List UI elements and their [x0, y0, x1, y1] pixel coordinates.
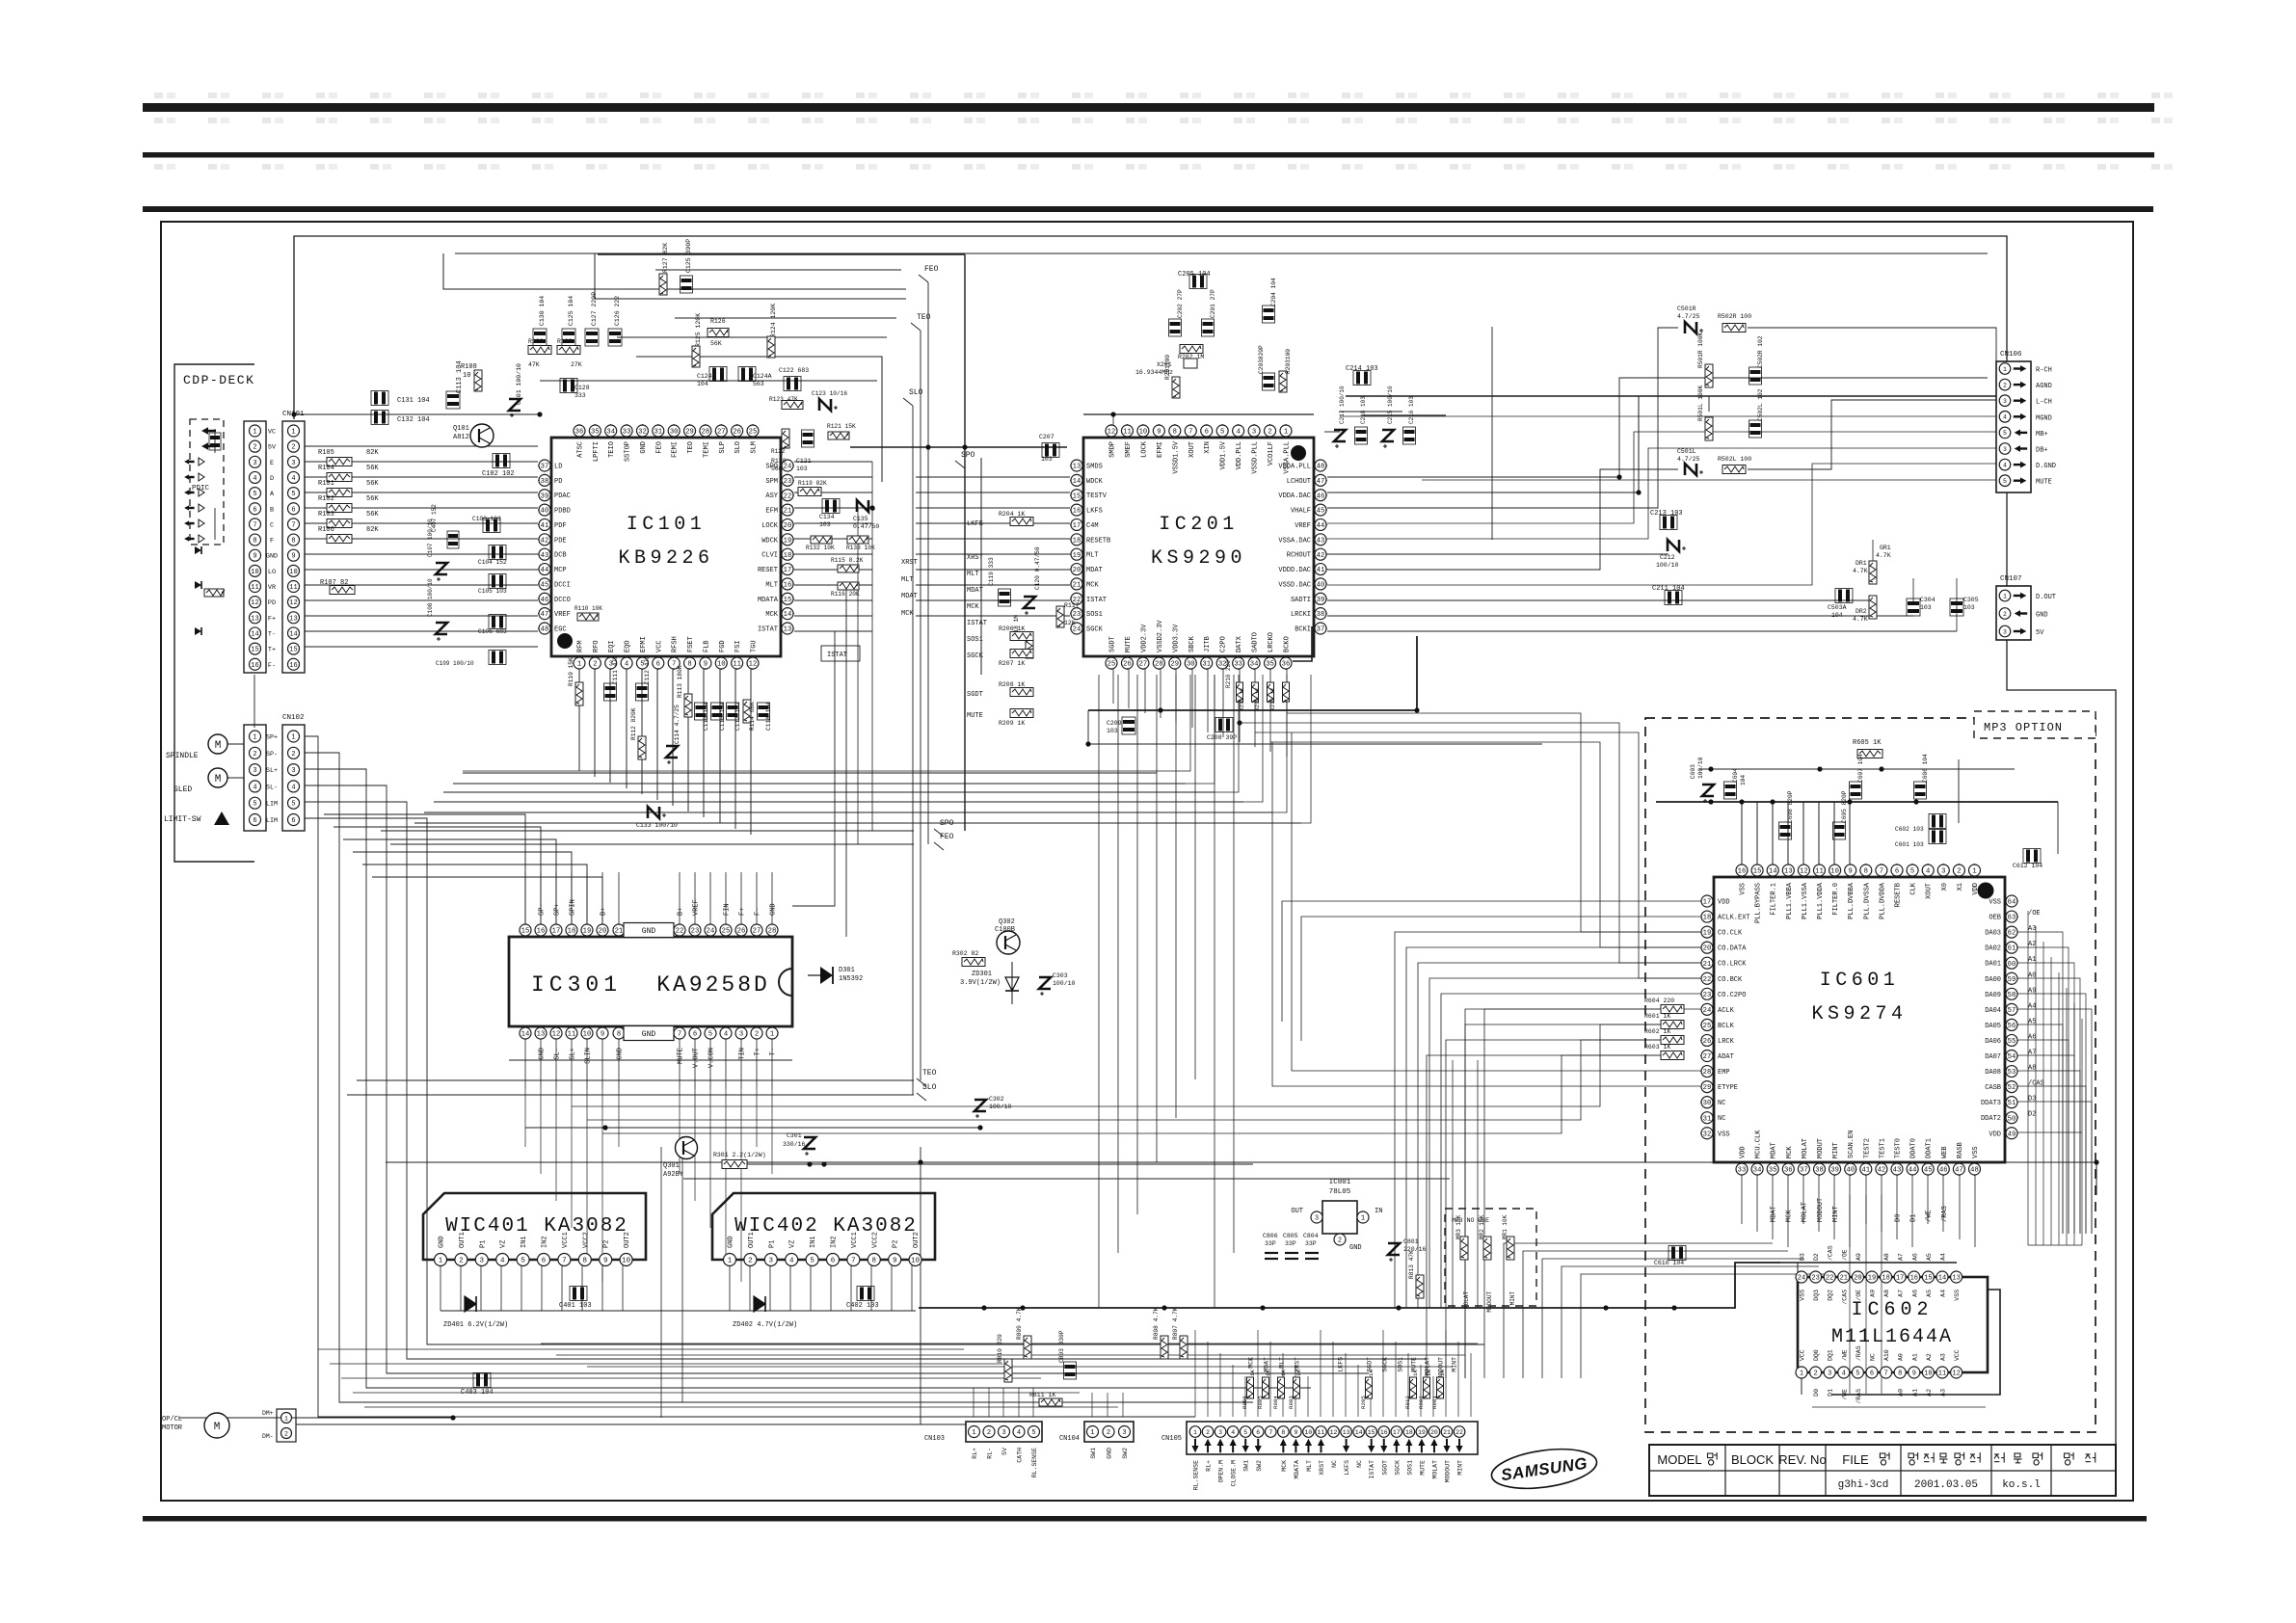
svg-text:4: 4: [1017, 1429, 1021, 1437]
svg-text:R811 1K: R811 1K: [1029, 1392, 1055, 1398]
svg-text:VCC: VCC: [1954, 1349, 1961, 1361]
svg-text:A3: A3: [1940, 1353, 1947, 1361]
svg-text:MCK: MCK: [901, 610, 914, 618]
svg-text:MCK: MCK: [1248, 1357, 1255, 1369]
svg-text:40: 40: [1846, 1167, 1855, 1175]
svg-text:11: 11: [1938, 1370, 1946, 1378]
svg-text:5: 5: [1243, 1429, 1247, 1436]
svg-text:DR1: DR1: [1855, 560, 1867, 567]
svg-text:RCHOUT: RCHOUT: [1287, 552, 1311, 560]
svg-text:GND: GND: [642, 1030, 656, 1039]
net tag SPO: [934, 819, 954, 837]
svg-text:C201 27P: C201 27P: [1210, 289, 1216, 318]
limit switch: [164, 811, 229, 825]
svg-text:D: D: [270, 475, 274, 483]
svg-text:12K: 12K: [1064, 620, 1076, 626]
svg-text:R133 10K: R133 10K: [846, 545, 875, 551]
svg-text:/RAS: /RAS: [1941, 1206, 1949, 1222]
svg-text:BCKO: BCKO: [1284, 636, 1292, 652]
svg-text:CN105: CN105: [1161, 1435, 1182, 1443]
svg-text:11: 11: [1318, 1429, 1325, 1436]
cap near PDIC: [209, 429, 221, 453]
GR1 labels: [1876, 545, 1891, 559]
svg-text:VDDA.DAC: VDDA.DAC: [1278, 492, 1311, 500]
svg-text:GND: GND: [617, 1048, 625, 1060]
svg-text:X0: X0: [1941, 883, 1949, 891]
svg-text:MLT: MLT: [967, 571, 979, 578]
svg-text:SL-: SL-: [266, 784, 278, 791]
svg-text:FLB: FLB: [703, 640, 710, 652]
svg-text:22: 22: [784, 492, 792, 500]
IC601 bottom net labels: [1771, 1198, 1949, 1222]
svg-text:C105 103: C105 103: [478, 588, 507, 595]
svg-text:48: 48: [541, 626, 549, 634]
svg-text:LRCKI: LRCKI: [1291, 611, 1311, 619]
svg-text:16: 16: [1910, 1275, 1918, 1283]
svg-text:DCCI: DCCI: [554, 581, 571, 589]
svg-text:PD: PD: [268, 599, 276, 607]
svg-text:17: 17: [1896, 1275, 1904, 1283]
svg-text:R803: R803: [1288, 1396, 1295, 1409]
svg-text:R603 1K: R603 1K: [1644, 1044, 1670, 1051]
svg-text:MDATA: MDATA: [758, 597, 779, 604]
svg-text:4: 4: [625, 661, 628, 669]
svg-text:SW1: SW1: [1090, 1448, 1097, 1459]
svg-text:MODOUT: MODOUT: [1486, 1291, 1493, 1313]
svg-text:A92BY: A92BY: [663, 1171, 684, 1179]
svg-text:OUT: OUT: [1291, 1208, 1303, 1215]
svg-text:6: 6: [831, 1258, 836, 1265]
motor connector pins: [262, 1410, 292, 1440]
svg-text:16: 16: [289, 662, 297, 670]
R127 C125: [659, 239, 693, 295]
svg-text:JITB: JITB: [1204, 636, 1212, 652]
svg-text:CO.BCK: CO.BCK: [1718, 976, 1743, 984]
net tag FEO: [934, 833, 954, 850]
svg-text:C303: C303: [1053, 972, 1068, 979]
spindle motor: [166, 734, 244, 760]
svg-text:C407 152: C407 152: [431, 504, 438, 532]
svg-text:R812: R812: [1404, 1396, 1411, 1409]
svg-text:9: 9: [704, 661, 707, 669]
svg-text:16: 16: [1380, 1429, 1388, 1436]
svg-text:R605 1K: R605 1K: [1853, 739, 1882, 747]
svg-text:12: 12: [1952, 1370, 1960, 1378]
svg-text:MCU.CLK: MCU.CLK: [1755, 1130, 1763, 1158]
svg-text:MOLAT: MOLAT: [1802, 1202, 1809, 1222]
svg-text:47: 47: [541, 611, 549, 619]
svg-text:DQ0: DQ0: [1813, 1349, 1820, 1361]
svg-text:VR: VR: [268, 584, 276, 592]
svg-text:EQO: EQO: [625, 640, 632, 652]
svg-text:4: 4: [291, 784, 295, 791]
svg-text:C131 104: C131 104: [397, 397, 430, 405]
svg-text:R-CH: R-CH: [2036, 367, 2052, 375]
connector CN101: [266, 411, 305, 673]
svg-text:C602 103: C602 103: [1895, 826, 1924, 833]
svg-text:PDE: PDE: [554, 537, 567, 545]
svg-text:11: 11: [568, 1031, 576, 1039]
caps C130 C125 C127 C126: [533, 292, 622, 346]
svg-text:22: 22: [1455, 1429, 1463, 1436]
svg-text:SL+: SL+: [266, 767, 278, 775]
R110: [574, 605, 602, 621]
svg-text:34: 34: [606, 429, 615, 437]
svg-text:A6: A6: [1911, 1290, 1918, 1297]
svg-text:55: 55: [2008, 1038, 2016, 1046]
svg-text:18: 18: [784, 552, 792, 560]
svg-text:C123 10/16: C123 10/16: [812, 390, 847, 397]
transistor Q302: [995, 918, 1020, 954]
svg-text:2: 2: [291, 444, 295, 452]
svg-text:28: 28: [1155, 661, 1163, 669]
svg-text:MLT: MLT: [1086, 552, 1099, 560]
svg-text:AGND: AGND: [2036, 383, 2052, 390]
svg-text:A8: A8: [1883, 1290, 1890, 1297]
svg-text:NC: NC: [1356, 1460, 1363, 1468]
svg-text:SADTI: SADTI: [1291, 597, 1311, 604]
IC201 KS9290: [1070, 424, 1327, 670]
svg-text:SLO: SLO: [734, 441, 742, 454]
svg-text:C212: C212: [1660, 554, 1675, 561]
svg-text:Q302: Q302: [999, 918, 1015, 926]
svg-text:DA05: DA05: [1985, 1023, 2001, 1030]
svg-text:2: 2: [253, 751, 256, 758]
svg-text:A1: A1: [2028, 956, 2036, 964]
C102: [482, 454, 515, 479]
svg-text:31: 31: [1202, 661, 1211, 669]
svg-text:19: 19: [784, 537, 792, 545]
svg-text:FSET: FSET: [687, 636, 695, 652]
svg-text:SPO: SPO: [961, 451, 975, 460]
C303: [1039, 972, 1076, 996]
svg-text:D0: D0: [1813, 1389, 1820, 1397]
svg-text:3: 3: [1941, 868, 1945, 876]
svg-text:DCB: DCB: [554, 552, 567, 560]
svg-text:P1: P1: [479, 1240, 487, 1248]
svg-text:21: 21: [1443, 1429, 1451, 1436]
svg-text:SMDP: SMDP: [1109, 441, 1117, 458]
R120 C121 R121: [771, 423, 856, 472]
svg-text:SGCK: SGCK: [1086, 626, 1104, 634]
svg-text:TIN: TIN: [739, 1048, 747, 1060]
svg-text:/CAS: /CAS: [1828, 1245, 1834, 1261]
svg-text:26: 26: [1703, 1038, 1712, 1046]
svg-text:13: 13: [1952, 1275, 1960, 1283]
caps C103-C109: [427, 504, 507, 667]
svg-text:7: 7: [562, 1258, 567, 1265]
svg-text:C503A: C503A: [1828, 604, 1847, 611]
svg-text:/OE: /OE: [1841, 1249, 1848, 1261]
svg-text:R101: R101: [318, 480, 334, 488]
svg-text:1: 1: [2003, 593, 2007, 599]
svg-text:8: 8: [687, 661, 691, 669]
svg-text:FSI: FSI: [734, 640, 742, 652]
svg-text:SLED: SLED: [174, 785, 192, 794]
zener ZD401: [443, 1296, 508, 1329]
svg-text:VDD: VDD: [1740, 1146, 1748, 1158]
top rule bar 1: [143, 103, 2154, 112]
components under IC101: [568, 655, 772, 829]
output filter R501/C501/C502: [1677, 306, 1764, 475]
svg-text:P2: P2: [893, 1240, 900, 1248]
caps C211 C212 C213: [1650, 510, 1686, 605]
svg-text:27: 27: [753, 928, 761, 936]
svg-text:F+: F+: [268, 615, 276, 623]
svg-text:MR3 10K: MR3 10K: [1455, 1214, 1462, 1239]
ISTAT label box: [821, 646, 860, 661]
svg-text:14: 14: [251, 630, 258, 638]
svg-text:1K: 1K: [1439, 1370, 1446, 1376]
svg-text:1: 1: [972, 1429, 975, 1437]
svg-text:6: 6: [1205, 429, 1209, 437]
svg-text:13: 13: [1343, 1429, 1350, 1436]
svg-text:VZ: VZ: [789, 1240, 797, 1248]
C128 333: [560, 379, 590, 400]
svg-text:R104: R104: [318, 465, 334, 472]
connector CN105: [1161, 1422, 1478, 1490]
svg-text:3: 3: [1315, 1215, 1319, 1223]
svg-text:26: 26: [1123, 661, 1132, 669]
svg-text:ZD401 6.2V(1/2W): ZD401 6.2V(1/2W): [443, 1321, 508, 1329]
transistor Q301: [663, 1137, 698, 1180]
svg-text:C114 4.7/25: C114 4.7/25: [674, 705, 681, 744]
svg-text:SGDT: SGDT: [967, 691, 983, 699]
svg-text:64: 64: [2008, 899, 2016, 907]
svg-text:1N5392: 1N5392: [839, 975, 863, 983]
svg-text:C109 100/10: C109 100/10: [436, 660, 474, 667]
svg-text:R117: R117: [1064, 602, 1080, 609]
svg-text:EMP: EMP: [1718, 1069, 1730, 1077]
svg-text:A5: A5: [1926, 1253, 1933, 1261]
svg-text:F-: F-: [755, 908, 762, 916]
svg-text:VCO1LF: VCO1LF: [1268, 441, 1275, 466]
svg-text:6: 6: [253, 506, 256, 514]
svg-text:11: 11: [1815, 868, 1824, 876]
svg-text:35: 35: [591, 429, 600, 437]
svg-text:NC: NC: [1331, 1460, 1338, 1468]
svg-text:SOS1: SOS1: [1086, 611, 1103, 619]
svg-text:4.7/25: 4.7/25: [1677, 313, 1700, 320]
svg-text:7: 7: [291, 521, 295, 529]
svg-text:SOS1: SOS1: [1406, 1460, 1413, 1476]
svg-text:GND: GND: [266, 553, 278, 561]
svg-text:WEB: WEB: [1941, 1146, 1949, 1158]
svg-text:4: 4: [2003, 414, 2007, 421]
svg-text:VSS: VSS: [1800, 1290, 1806, 1301]
svg-text:1: 1: [253, 734, 256, 742]
svg-text:2: 2: [748, 1258, 753, 1265]
svg-text:C304: C304: [1920, 597, 1936, 603]
svg-text:15: 15: [784, 597, 792, 604]
svg-text:CO.CLK: CO.CLK: [1718, 930, 1743, 938]
svg-text:19: 19: [1073, 552, 1081, 560]
svg-text:24: 24: [1703, 1007, 1712, 1015]
svg-text:R207 1K: R207 1K: [999, 660, 1025, 667]
svg-text:36: 36: [575, 429, 584, 437]
svg-text:XOUT: XOUT: [1188, 441, 1196, 458]
svg-text:RL-: RL-: [987, 1448, 994, 1459]
svg-text:R801: R801: [1431, 1396, 1438, 1409]
svg-text:4: 4: [789, 1258, 794, 1265]
top rule bar 2: [143, 152, 2154, 158]
svg-text:PLL1.VDDA: PLL1.VDDA: [1817, 882, 1825, 919]
R115 R116 C119 C120 R117 R118: [831, 546, 1080, 658]
svg-text:MINT: MINT: [1832, 1142, 1840, 1158]
svg-text:BCLK: BCLK: [1718, 1023, 1735, 1030]
svg-text:M: M: [215, 774, 222, 785]
svg-text:C108 100/10: C108 100/10: [427, 578, 434, 617]
svg-text:MCK: MCK: [1086, 581, 1099, 589]
svg-text:DA01: DA01: [1985, 961, 2001, 969]
svg-text:C612 104: C612 104: [2013, 863, 2042, 869]
svg-text:VDD3.3V: VDD3.3V: [1172, 624, 1180, 652]
svg-text:SBCK: SBCK: [1188, 635, 1196, 652]
svg-text:VREF: VREF: [1295, 522, 1311, 530]
svg-text:A2: A2: [2028, 941, 2036, 948]
svg-text:TEMI: TEMI: [703, 441, 710, 458]
svg-text:33: 33: [1738, 1167, 1747, 1175]
svg-text:VSS: VSS: [1718, 1131, 1730, 1138]
svg-text:25: 25: [722, 928, 731, 936]
svg-text:22: 22: [1826, 1275, 1833, 1283]
svg-text:25: 25: [749, 429, 758, 437]
svg-text:R201100: R201100: [1164, 355, 1171, 380]
svg-text:C101 100/10: C101 100/10: [516, 363, 522, 405]
svg-text:11: 11: [251, 584, 258, 592]
svg-text:MINT: MINT: [1452, 1357, 1458, 1372]
svg-text:8: 8: [1864, 868, 1868, 876]
svg-text:SP-: SP-: [266, 751, 278, 758]
svg-text:SMDS: SMDS: [1086, 464, 1103, 471]
svg-text:R810 220: R810 220: [997, 1334, 1003, 1363]
svg-text:SW2: SW2: [1122, 1448, 1129, 1459]
svg-text:R302 82: R302 82: [952, 950, 978, 957]
svg-text:RESET: RESET: [758, 567, 778, 574]
svg-text:R126: R126: [710, 318, 726, 325]
svg-text:C203820P: C203820P: [1258, 345, 1265, 374]
svg-text:48: 48: [1317, 464, 1325, 471]
svg-text:2: 2: [593, 661, 597, 669]
svg-text:C104 152: C104 152: [478, 559, 507, 566]
svg-text:CO.DATA: CO.DATA: [1718, 945, 1747, 953]
svg-text:KS9290: KS9290: [1151, 547, 1246, 570]
svg-text:CLK: CLK: [1910, 882, 1918, 894]
svg-text:SGDT: SGDT: [1381, 1460, 1388, 1476]
svg-text:7: 7: [1883, 1370, 1887, 1378]
svg-text:CN107: CN107: [2000, 575, 2022, 583]
svg-text:17: 17: [1393, 1429, 1401, 1436]
svg-text:SP+: SP+: [266, 734, 278, 742]
svg-text:33P: 33P: [1285, 1240, 1296, 1247]
svg-text:9: 9: [601, 1031, 604, 1039]
svg-text:XRST: XRST: [967, 554, 983, 562]
svg-text:GND: GND: [640, 441, 648, 454]
svg-text:21: 21: [1073, 582, 1081, 590]
svg-text:FEO: FEO: [940, 833, 954, 841]
svg-text:56K: 56K: [366, 465, 379, 472]
svg-text:C402 103: C402 103: [846, 1302, 879, 1310]
svg-text:RL+: RL+: [972, 1448, 978, 1459]
svg-text:VSSA.DAC: VSSA.DAC: [1278, 537, 1311, 545]
svg-text:A4: A4: [1940, 1290, 1947, 1297]
svg-text:IN: IN: [1375, 1208, 1382, 1215]
svg-text:C2PO: C2PO: [1220, 636, 1228, 652]
svg-text:5: 5: [253, 801, 256, 809]
svg-text:R301 2.2(1/2W): R301 2.2(1/2W): [713, 1152, 766, 1158]
svg-text:49: 49: [2008, 1131, 2016, 1138]
svg-text:3: 3: [769, 1258, 774, 1265]
svg-text:CDP-DECK: CDP-DECK: [183, 373, 254, 387]
svg-text:MP3 OPTION: MP3 OPTION: [1984, 721, 2063, 734]
svg-text:KB9226: KB9226: [618, 547, 713, 570]
svg-text:4: 4: [2003, 462, 2007, 468]
svg-text:REV. No: REV. No: [1778, 1452, 1826, 1467]
svg-text:C208 39P: C208 39P: [1207, 734, 1237, 741]
svg-text:EFM: EFM: [765, 508, 778, 516]
svg-text:33P: 33P: [1265, 1240, 1276, 1247]
connector CN104: [1059, 1422, 1134, 1459]
svg-text:CATH: CATH: [1017, 1448, 1024, 1463]
svg-text:32: 32: [1703, 1131, 1712, 1138]
net tag SPO top: [955, 451, 975, 468]
svg-text:RFM: RFM: [577, 640, 585, 652]
svg-text:VZ: VZ: [500, 1240, 508, 1248]
svg-text:7: 7: [1188, 429, 1192, 437]
svg-text:23: 23: [1073, 611, 1081, 619]
svg-text:100/10: 100/10: [1053, 980, 1076, 987]
svg-text:EQI: EQI: [608, 640, 616, 652]
svg-text:MOLAT: MOLAT: [1431, 1460, 1438, 1479]
MP3 NO USE block: [1445, 1209, 1536, 1313]
svg-text:13: 13: [251, 615, 258, 623]
svg-text:MOTOR: MOTOR: [162, 1424, 183, 1432]
svg-text:GND: GND: [539, 1048, 547, 1060]
top rule bar 3: [143, 206, 2153, 212]
svg-text:35: 35: [1266, 661, 1274, 669]
svg-text:11: 11: [733, 661, 741, 669]
svg-text:Q301: Q301: [663, 1162, 680, 1170]
svg-text:20: 20: [784, 522, 792, 530]
svg-text:8: 8: [617, 1031, 621, 1039]
svg-text:CLVI: CLVI: [761, 552, 778, 560]
svg-text:4.7/25: 4.7/25: [1677, 456, 1700, 463]
svg-text:R806: R806: [1241, 1396, 1248, 1409]
R813 47K: [1408, 1250, 1424, 1298]
svg-text:MLT: MLT: [1306, 1460, 1313, 1472]
svg-text:31: 31: [1703, 1115, 1712, 1123]
svg-text:36: 36: [1282, 661, 1291, 669]
svg-text:R122: R122: [771, 448, 786, 455]
svg-text:A6: A6: [2028, 1033, 2036, 1041]
svg-text:27: 27: [1139, 661, 1148, 669]
C207: [1039, 434, 1059, 463]
svg-text:T+: T+: [268, 647, 276, 654]
svg-text:1K: 1K: [1368, 1370, 1375, 1376]
svg-text:VSSD.PLL: VSSD.PLL: [1252, 441, 1260, 474]
svg-text:40: 40: [541, 508, 549, 516]
svg-text:KS9274: KS9274: [1811, 1003, 1907, 1025]
caps C131 C132: [371, 391, 430, 425]
svg-text:A2: A2: [1926, 1389, 1933, 1397]
svg-text:GND: GND: [1107, 1448, 1113, 1459]
svg-text:103: 103: [819, 521, 831, 528]
svg-text:41: 41: [1861, 1167, 1870, 1175]
svg-text:38: 38: [541, 478, 549, 486]
svg-text:4.7K: 4.7K: [1853, 568, 1868, 574]
svg-text:1K: 1K: [1295, 1370, 1302, 1376]
svg-text:DQ1: DQ1: [1828, 1349, 1834, 1361]
